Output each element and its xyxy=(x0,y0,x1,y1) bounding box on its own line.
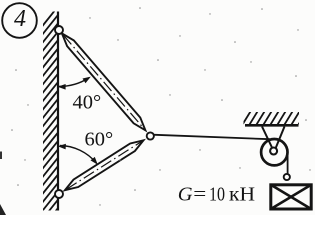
svg-text:40°: 40° xyxy=(73,92,102,114)
arrow 60 wall end xyxy=(58,144,66,150)
joint C xyxy=(147,132,154,139)
load box X diagonal 2 xyxy=(271,185,311,209)
arrow 60 bar end xyxy=(91,157,98,165)
ceiling hatching xyxy=(241,109,308,127)
angle arc 60deg xyxy=(60,146,97,164)
scan artifact bottom-left corner xyxy=(0,204,6,215)
pulley bracket xyxy=(262,127,273,150)
load box xyxy=(271,185,311,209)
scan artifact left edge xyxy=(0,152,2,160)
speckles xyxy=(11,7,310,206)
svg-text:60°: 60° xyxy=(85,129,114,151)
ceiling line xyxy=(245,124,299,127)
hook ring xyxy=(284,174,290,180)
svg-text:4: 4 xyxy=(14,6,26,32)
load box X diagonal 1 xyxy=(271,185,311,209)
arrow 40 wall end xyxy=(58,84,66,90)
arrow 40 bar end xyxy=(83,77,91,84)
wall face line xyxy=(57,12,59,211)
rope horizontal from joint to pulley xyxy=(152,135,270,140)
top bar (strut A-C) xyxy=(62,33,145,130)
pulley wheel xyxy=(261,139,287,165)
problem number circle 4 xyxy=(2,3,37,38)
pin B bottom xyxy=(55,190,63,198)
pulley axle xyxy=(270,148,277,155)
angle arc 40deg xyxy=(58,78,89,87)
rope vertical to hook xyxy=(287,150,289,174)
wall hatching xyxy=(36,0,64,240)
bottom bar (strut B-C) xyxy=(65,140,144,190)
pin A top xyxy=(55,26,63,34)
svg-text:G=10кН: G=10кН xyxy=(178,184,255,206)
